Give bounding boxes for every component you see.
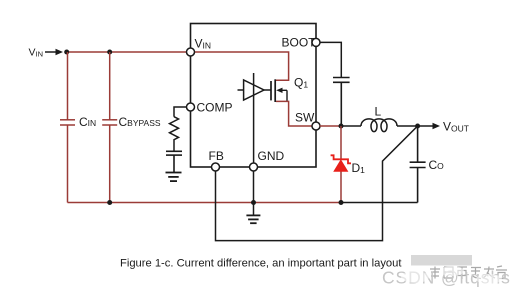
pin VIN circle [187,48,195,56]
pin COMP circle [187,103,195,111]
svg-text:COMP: COMP [197,101,233,115]
svg-text:Figure 1-c. Current difference: Figure 1-c. Current difference, an impor… [120,258,402,270]
svg-text:L: L [375,105,382,119]
capacitor CIN [60,52,75,203]
pin FB circle [212,163,220,171]
wire VIN internal (red, pin to Q1 drain) [194,52,288,80]
COMP compensation network wire [174,107,186,117]
pin BOOT circle [312,38,320,46]
wire D1 anode down to ground rail (red) [340,171,342,203]
watermark chinese glyph marks [430,266,507,279]
wire VIN rail (red, input to IC VIN pin) [67,51,187,53]
svg-text:BOOT: BOOT [282,36,317,50]
ground COMP network [166,173,182,182]
wire Co return to ground rail (black) [341,202,418,204]
wire ground return (red bottom rail) [68,202,342,204]
watermark white blur blobs [401,266,502,284]
junction at VIN and CBYPASS [107,50,112,55]
wire feedback from VOUT node to FB pin [216,126,418,241]
watermark gray box [411,255,472,266]
junction CBYPASS to ground rail [107,200,112,205]
capacitor Ccomp [166,151,182,173]
driver supply/ground line inside IC [253,73,255,163]
junction GND pin to ground rail [251,200,256,205]
IC box U1 [191,24,317,168]
wire Q1 source to SW pin (red) [276,101,312,126]
svg-text:FB: FB [209,149,224,163]
junction D1 to ground rail [339,200,344,205]
transistor Q1 [271,79,275,102]
wire GND pin to ground symbol [253,171,255,215]
svg-text:CO: CO [429,158,445,172]
svg-text:GND: GND [258,149,285,163]
diode D1 (schottky, red) [331,155,351,171]
svg-text:CBYPASS: CBYPASS [119,115,161,129]
wire SW node to inductor [341,125,361,127]
svg-text:SW: SW [295,111,315,125]
capacitor Cboot [333,78,350,127]
ground main [246,215,260,223]
inductor L [361,119,397,132]
junction at VIN and CIN [64,50,69,55]
wire inductor to VOUT node [397,125,418,127]
capacitor CBYPASS [102,52,117,203]
VIN input arrow [45,49,63,55]
junction SW node [339,124,344,129]
resistor Rcomp [170,117,179,151]
Q1 source arrow [276,88,287,102]
junction VOUT node [415,124,420,129]
wire BOOT to bootstrap cap [320,42,341,77]
wire SW to inductor node (red) [320,125,341,127]
wire SW node down to D1 (red) [340,126,342,159]
pin GND circle [250,163,258,171]
op-amp driver triangle [238,80,272,100]
pin SW circle [312,122,320,130]
capacitor Co [410,126,426,203]
svg-text:CIN: CIN [79,115,96,129]
VOUT output arrow [418,123,440,129]
